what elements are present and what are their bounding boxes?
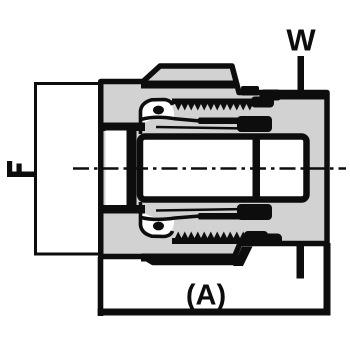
thread end cap upper (251, 97, 274, 108)
front ferrule wedge dot lower (153, 222, 164, 231)
leader line W lower (297, 244, 305, 279)
fitting body (gray cross-section outline with hex crown) (101, 66, 327, 263)
label F middle arm (17, 164, 22, 177)
tube wall line lower (198, 213, 240, 220)
dimension extension right (A) (324, 243, 331, 315)
front ferrule white pocket upper (142, 100, 174, 133)
nut end step upper (241, 86, 259, 96)
leader line W upper (298, 56, 305, 94)
tube end block upper (237, 116, 272, 132)
nut bore line upper (thread root line) (141, 81, 237, 89)
svg-text:W: W (286, 23, 316, 58)
ferrule seat swoosh lower (141, 216, 200, 219)
bore cavity (tube passage) (140, 137, 307, 200)
thread engagement upper (sawtooth) (172, 99, 253, 111)
ferrule seat swoosh upper (141, 117, 200, 121)
dimension extension left (A) (98, 257, 104, 316)
counterbore shoulder bar lower (103, 205, 145, 214)
counterbore wall (127, 129, 137, 207)
back ferrule pill upper (260, 90, 283, 101)
nut end hook lower (233, 247, 253, 267)
label F (rotated) stem with leader (7, 172, 36, 178)
svg-text:(A): (A) (186, 280, 226, 312)
thread end cap lower (244, 231, 268, 242)
front ferrule wedge dot upper (153, 106, 164, 115)
centerline (dash-dot) (73, 167, 346, 170)
back ferrule pill lower (260, 234, 283, 246)
front ferrule dome outline lower (141, 202, 173, 237)
tube wall line upper (198, 118, 240, 125)
label F top arm (7, 161, 12, 177)
nut bore line lower (thread root line) (141, 254, 236, 262)
counterbore slot white (106, 131, 127, 206)
front ferrule dome outline upper (141, 100, 173, 135)
tube inner line upper (156, 127, 246, 129)
body shoulder edge bar upper right (268, 93, 327, 100)
front ferrule white pocket lower (142, 203, 174, 236)
counterbore shoulder bar upper (103, 123, 145, 132)
thread engagement lower (sawtooth) (172, 232, 253, 245)
dimension line (A) (98, 309, 331, 316)
tube inner line lower (156, 209, 246, 211)
socket end (left rectangle, external view) (36, 84, 103, 255)
tube end block lower (237, 204, 272, 220)
tube end divider (253, 134, 261, 203)
